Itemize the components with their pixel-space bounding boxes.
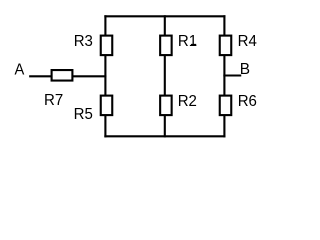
resistor R6 [220,96,232,116]
resistor R2 [160,96,172,116]
resistor R4 [220,36,232,56]
svg-text:R3: R3 [74,33,93,50]
svg-text:B: B [240,61,250,78]
svg-text:R6: R6 [238,93,257,110]
resistor R1 [160,36,172,56]
svg-text:R1: R1 [178,33,197,50]
wire bottom rail [105,135,224,137]
wire left branch vertical [104,16,106,136]
wire middle branch vertical [164,16,166,136]
resistor R5 [101,96,113,116]
wire right branch vertical [223,16,225,136]
svg-text:R2: R2 [178,93,197,110]
svg-text:R5: R5 [74,106,94,123]
resistor R7 [52,70,73,81]
svg-text:A: A [15,61,25,78]
wire node A to left branch [30,75,105,77]
svg-text:R7: R7 [44,92,63,109]
svg-text:R4: R4 [238,33,258,50]
wire top rail [105,15,224,17]
resistor R3 [101,36,113,56]
wire right branch to node B [224,74,240,76]
